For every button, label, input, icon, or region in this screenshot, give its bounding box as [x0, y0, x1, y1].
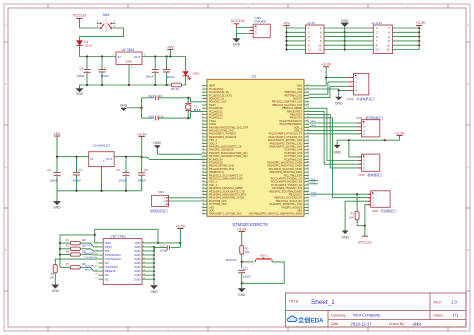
svg-text:+5V: +5V: [167, 45, 174, 49]
wire R2 to C11 node: [241, 254, 243, 268]
svg-text:+3.3V: +3.3V: [137, 132, 147, 136]
svg-text:CN8: CN8: [372, 209, 378, 213]
U1 right pin names: [249, 85, 303, 216]
ground symbol BOOT0: [238, 283, 246, 297]
power flag VCC12v (input): [73, 14, 87, 22]
wires header np3.3V right pins to +3.3V rail: [392, 26, 420, 50]
ground symbol CN1/CN4: [333, 140, 341, 154]
connector CN7 JTAG body: [103, 235, 142, 285]
svg-text:44: 44: [307, 148, 309, 150]
svg-text:100pF: 100pF: [160, 248, 168, 252]
ground symbol MCU VSS: [153, 141, 161, 154]
svg-text:TDO/SWO: TDO/SWO: [85, 265, 96, 267]
svg-text:PA8/USART1_CK/TIM1_CH1: PA8/USART1_CK/TIM1_CH1: [209, 213, 242, 216]
wire U1 to CN4 pin4: [309, 115, 362, 168]
ground symbol R6: [52, 273, 60, 293]
capacitor C1 500nF: [99, 57, 110, 86]
wire U1 to CN4 pin3: [309, 111, 362, 164]
svg-text:11: 11: [203, 116, 205, 118]
svg-text:C4: C4: [79, 168, 83, 172]
CN7 left pin names: [105, 241, 122, 281]
svg-text:GND: GND: [52, 289, 60, 293]
svg-text:53: 53: [307, 120, 309, 122]
svg-text:33: 33: [307, 184, 309, 186]
svg-text:48: 48: [307, 136, 309, 138]
wire U1 PB6 to CN2 pin2: [309, 82, 348, 94]
svg-text:500nF: 500nF: [166, 75, 174, 79]
svg-text:46: 46: [307, 142, 309, 144]
svg-text:37: 37: [202, 200, 204, 202]
ground symbol CN2: [335, 97, 343, 106]
svg-text:10K: 10K: [349, 215, 354, 219]
wire CN8 pin4 to VCC12v: [365, 205, 371, 226]
wire TCK to pull-down resistor: [55, 259, 98, 264]
capacitor C2 100uF: [145, 57, 158, 86]
wire VCC12v to SW1: [80, 22, 97, 28]
svg-text:40: 40: [307, 161, 309, 163]
power flag +5V (U3 input): [54, 132, 61, 157]
svg-text:37: 37: [307, 171, 309, 173]
svg-text:20: 20: [143, 278, 145, 280]
connector CN3: [150, 190, 169, 213]
svg-text:GND: GND: [333, 151, 341, 155]
svg-text:33: 33: [202, 187, 204, 189]
wire U1 PB7 to CN2 pin3: [309, 86, 348, 97]
ground symbol CN7: [150, 286, 158, 294]
wire +3.3V to U1 VDD: [142, 157, 202, 159]
svg-text:1: 1: [203, 84, 204, 86]
svg-text:GND: GND: [53, 205, 61, 209]
svg-text:4: 4: [143, 245, 144, 247]
svg-text:2: 2: [143, 241, 144, 243]
junction dots output rail: [154, 55, 156, 57]
svg-text:KEY1: KEY1: [260, 253, 268, 257]
wire CN7 right VDD to +3.3V riser: [147, 242, 180, 244]
svg-text:+3.3V: +3.3V: [416, 21, 426, 25]
capacitor C6 100uF: [47, 157, 60, 191]
svg-text:C11: C11: [243, 267, 248, 271]
svg-text:30: 30: [307, 193, 309, 195]
svg-text:52: 52: [307, 123, 309, 125]
wire D1 to U2 IN: [80, 45, 117, 56]
svg-text:步进电机接口: 步进电机接口: [357, 96, 375, 101]
title block: [285, 293, 466, 327]
svg-text:39: 39: [202, 206, 204, 208]
wire U1 to CN1 pin1: [309, 122, 357, 124]
svg-text:7: 7: [203, 104, 204, 106]
svg-text:BOOT0: BOOT0: [226, 258, 237, 262]
svg-text:np 3.3V: np 3.3V: [372, 21, 384, 25]
wire +5V to U3 IN: [57, 156, 89, 158]
ground rail U3 section: [57, 190, 142, 192]
svg-text:21: 21: [202, 148, 204, 150]
diode D1 SS14: [77, 40, 92, 47]
svg-text:VCC12v: VCC12v: [231, 19, 245, 23]
svg-text:13: 13: [95, 266, 97, 268]
svg-text:26: 26: [307, 206, 309, 208]
svg-text:C12: C12: [160, 243, 165, 247]
svg-text:100uF: 100uF: [145, 75, 153, 79]
wires header np5V right pins to GND rail: [324, 27, 346, 51]
svg-text:24: 24: [307, 212, 309, 214]
svg-text:8: 8: [143, 253, 144, 255]
svg-text:54: 54: [307, 116, 309, 118]
connector CN4: [358, 154, 382, 177]
wire U2 OUT +5V rail: [142, 56, 186, 58]
svg-text:56: 56: [307, 110, 309, 112]
svg-text:39: 39: [307, 164, 309, 166]
svg-text:50: 50: [307, 129, 309, 131]
push button KEY1: [242, 253, 277, 266]
svg-text:18: 18: [202, 139, 204, 141]
svg-text:10K: 10K: [82, 239, 87, 242]
svg-text:20: 20: [202, 145, 204, 147]
svg-text:14: 14: [202, 126, 204, 128]
svg-text:TCK/SWCLK: TCK/SWCLK: [84, 257, 97, 259]
wire U3 OUT to +3.3V rail: [114, 156, 142, 158]
connector CN8: [368, 191, 396, 213]
svg-text:30: 30: [202, 177, 204, 179]
svg-text:C1: C1: [104, 66, 108, 70]
wire C10 to OSC_OUT: [158, 111, 202, 118]
power flag +3.3V (BOOT0): [237, 227, 247, 245]
pin header np 5V: [306, 21, 325, 54]
net labels JTAG: [84, 245, 97, 271]
svg-text:28: 28: [202, 171, 204, 173]
resistor R4 10K (TMS pull-up): [60, 250, 98, 256]
svg-text:15: 15: [202, 129, 204, 131]
svg-text:100nF: 100nF: [243, 275, 251, 279]
svg-text:29: 29: [202, 174, 204, 176]
wire GND to U1 VSS: [157, 153, 202, 155]
wire U1 to CN1 pin3: [309, 130, 357, 132]
svg-text:+5V: +5V: [283, 21, 290, 25]
capacitor C10 22pF (series bottom): [142, 114, 165, 120]
svg-text:12: 12: [318, 48, 322, 52]
svg-text:+3.3V: +3.3V: [237, 227, 247, 231]
svg-text:3: 3: [203, 91, 204, 93]
svg-text:27: 27: [202, 168, 204, 170]
power flag +3.3V (headers): [416, 21, 426, 25]
wire SW1 to D1: [80, 28, 124, 41]
MCU U1 STM32F103RCT6 body: [207, 74, 304, 227]
power flag +5V (header): [283, 21, 290, 25]
svg-text:32: 32: [307, 187, 309, 189]
svg-text:4: 4: [203, 94, 204, 96]
svg-text:射频遥控接口: 射频遥控接口: [150, 208, 168, 213]
CN7 left pin stubs and numbers: [95, 241, 103, 279]
svg-text:14: 14: [143, 266, 145, 268]
wires CN7 GND pins to rail: [147, 246, 155, 286]
svg-text:GND: GND: [76, 92, 84, 96]
svg-text:100uF: 100uF: [119, 178, 127, 182]
wire KEY1 to ground loop: [242, 262, 285, 283]
svg-text:TITLE:: TITLE:: [289, 300, 300, 304]
svg-text:8: 8: [203, 107, 204, 109]
power flag +5V: [167, 45, 174, 56]
svg-text:36: 36: [202, 196, 204, 198]
wire trunk to CN4 pin1: [349, 140, 362, 157]
svg-text:500nF: 500nF: [73, 178, 81, 182]
U1 left pin stubs and numbers: [202, 84, 207, 214]
ground symbol CN6: [233, 39, 241, 47]
svg-text:34: 34: [307, 180, 309, 182]
wire U2 GND pin to ground rail: [128, 65, 130, 86]
svg-text:11: 11: [96, 262, 98, 264]
svg-text:35: 35: [202, 193, 204, 195]
svg-text:17: 17: [202, 136, 204, 138]
wire U1 to CN1 pin4: [309, 133, 357, 135]
svg-text:19: 19: [95, 278, 97, 280]
resistor R3 10K (pull to VCC12v): [349, 194, 359, 226]
svg-text:22: 22: [202, 152, 204, 154]
svg-text:REV:: REV:: [434, 300, 442, 304]
power flag +3.3V (CN1/CN4): [395, 131, 405, 140]
capacitor C12 100pF (decoupling): [154, 243, 180, 252]
svg-text:64: 64: [307, 84, 309, 86]
svg-text:10: 10: [202, 113, 204, 115]
svg-text:Drawn By:: Drawn By:: [389, 322, 405, 326]
power flag +3.3V (CN7): [176, 224, 186, 247]
wire +3.3V / GND rail CN1-CN4: [337, 139, 400, 141]
wire C9 to OSC_IN: [158, 98, 202, 102]
svg-text:CN3: CN3: [158, 190, 164, 194]
svg-text:12: 12: [143, 262, 145, 264]
svg-text:SW1: SW1: [102, 13, 109, 17]
svg-text:35: 35: [307, 177, 309, 179]
svg-text:GND: GND: [233, 43, 241, 47]
svg-text:NC: NC: [105, 277, 109, 281]
svg-text:VDD PB(1)SPI2_NAV/GC2_SSB/AD: VDD PB(1)SPI2_NAV/GC2_SSB/ADTIM1_BKIN: [249, 213, 303, 216]
svg-text:VCC12v: VCC12v: [73, 14, 87, 18]
svg-text:18: 18: [143, 274, 145, 276]
wire R3 to VCC12v node: [357, 225, 365, 227]
svg-text:PWOER: PWOER: [255, 19, 267, 23]
svg-text:RESET#: RESET#: [85, 269, 94, 271]
svg-text:25: 25: [307, 209, 309, 211]
capacitor C9 22pF (series top): [142, 94, 163, 100]
svg-text:22pF: 22pF: [148, 94, 154, 98]
svg-text:6: 6: [143, 249, 144, 251]
svg-text:GND: GND: [335, 101, 343, 105]
svg-text:36: 36: [307, 174, 309, 176]
svg-text:LED1: LED1: [193, 72, 201, 76]
wire U1 to CN1 pin2: [309, 126, 357, 128]
svg-text:42: 42: [307, 155, 309, 157]
capacitor C7 100uF: [116, 157, 129, 191]
svg-text:CN2: CN2: [347, 97, 353, 101]
svg-text:TMS/SWDIO: TMS/SWDIO: [84, 253, 97, 255]
svg-text:49: 49: [307, 132, 309, 134]
svg-text:TRST: TRST: [86, 245, 92, 247]
ground symbol U3 section: [53, 191, 61, 210]
svg-text:5: 5: [203, 97, 204, 99]
resistor R7 10K (RESET pull-up): [60, 263, 98, 271]
svg-text:6: 6: [203, 100, 204, 102]
connector CN1 label: [356, 115, 383, 120]
svg-text:1.0: 1.0: [451, 299, 457, 304]
svg-text:SS14: SS14: [85, 44, 92, 48]
svg-text:40: 40: [202, 209, 204, 211]
svg-text:63: 63: [307, 88, 309, 90]
connector CN2: [347, 73, 374, 101]
wire CN7 VDD loop: [95, 229, 158, 243]
svg-text:CN7 JTAG: CN7 JTAG: [111, 235, 127, 239]
svg-text:2: 2: [203, 88, 204, 90]
svg-text:29: 29: [307, 196, 309, 198]
capacitor C8 100uF: [77, 57, 91, 86]
wire +3.3V to CN2 pin1: [326, 77, 348, 79]
svg-text:16: 16: [143, 270, 145, 272]
svg-text:PC10: PC10: [311, 192, 317, 194]
svg-text:27: 27: [307, 203, 309, 205]
wires GND rail to header np3.3V left pins: [345, 28, 374, 50]
svg-text:IN: IN: [90, 157, 93, 161]
svg-text:IN: IN: [118, 55, 121, 59]
svg-text:500nF: 500nF: [101, 74, 109, 78]
svg-text:CN4: CN4: [358, 173, 364, 177]
svg-text:100uF: 100uF: [50, 178, 58, 182]
svg-text:OUT: OUT: [106, 157, 113, 161]
svg-text:OUT: OUT: [134, 55, 141, 59]
svg-text:13: 13: [202, 123, 204, 125]
svg-text:Company:: Company:: [331, 313, 347, 317]
svg-text:Sheet_1: Sheet_1: [311, 299, 335, 306]
capacitor C11 100nF: [238, 267, 251, 284]
svg-text:Your Company: Your Company: [353, 313, 381, 318]
svg-text:1/1: 1/1: [453, 313, 459, 318]
svg-text:TDI: TDI: [86, 249, 90, 251]
svg-text:PA12: PA12: [311, 124, 317, 127]
wire CN3 pin2 to U1: [169, 200, 203, 202]
svg-text:58: 58: [307, 104, 309, 106]
svg-text:34: 34: [202, 190, 204, 192]
wire CN3 pin1 to U1: [169, 197, 203, 199]
junction dots input rail: [86, 55, 88, 57]
svg-text:继电器接口: 继电器接口: [368, 172, 383, 177]
resistor R5 1K: [171, 83, 182, 91]
svg-text:np 5V: np 5V: [307, 21, 316, 25]
svg-text:28: 28: [307, 200, 309, 202]
svg-text:8MHz: 8MHz: [194, 108, 202, 112]
svg-text:12: 12: [387, 48, 391, 52]
svg-text:C8: C8: [79, 66, 83, 70]
svg-text:GND: GND: [126, 59, 134, 63]
regulator U2 7805: [112, 48, 146, 69]
svg-text:41: 41: [307, 158, 309, 160]
svg-text:U3 ASM1117: U3 ASM1117: [93, 144, 111, 148]
svg-text:43: 43: [307, 152, 309, 154]
svg-text:11: 11: [376, 48, 379, 52]
resistor R2a 10K (TDI pull-up): [60, 245, 98, 251]
svg-text:31: 31: [202, 180, 204, 182]
svg-text:25: 25: [202, 161, 204, 163]
crystal Y1 8MHz: [185, 98, 202, 118]
svg-text:R5 1K: R5 1K: [171, 87, 179, 91]
svg-text:47: 47: [307, 139, 309, 141]
wire CN8 pin3 to GND: [345, 201, 371, 230]
power flag +3.3V (CN2): [321, 63, 331, 78]
svg-text:U1: U1: [252, 74, 257, 78]
svg-text:GND: GND: [341, 19, 349, 23]
wire VCC12v to CN6 pin1: [237, 26, 250, 28]
svg-text:GND: GND: [120, 103, 128, 107]
svg-text:C5: C5: [144, 168, 148, 172]
ground symbol crystal: [120, 103, 128, 111]
svg-text:32: 32: [202, 184, 204, 186]
power flag VCC12v (CN8): [358, 226, 372, 245]
U1 left pin names: [209, 85, 248, 216]
svg-text:24: 24: [202, 158, 204, 160]
svg-text:+3.3V: +3.3V: [321, 63, 331, 67]
wire crystal left rail: [141, 98, 143, 118]
svg-text:VCC12v: VCC12v: [358, 240, 372, 244]
power flag VCC12v (CN6): [231, 19, 245, 28]
svg-text:+5V: +5V: [54, 132, 61, 136]
svg-text:GND: GND: [238, 293, 246, 297]
wire LED to R5: [181, 76, 186, 85]
wire +5V rail to header left pins: [285, 26, 305, 51]
LCEDA logo: [287, 316, 324, 325]
svg-text:GND: GND: [150, 290, 158, 294]
svg-text:GND: GND: [341, 235, 349, 239]
pin header np 3.3V: [372, 21, 393, 54]
svg-text:B: B: [5, 82, 7, 86]
svg-text:C7: C7: [116, 168, 120, 172]
svg-text:10K: 10K: [50, 276, 55, 279]
wire crystal ground tap: [127, 107, 142, 109]
CN7 right pin stubs and numbers: [142, 241, 147, 279]
svg-text:23: 23: [202, 155, 204, 157]
ground symbol 7805 section: [76, 85, 84, 96]
wire +3.3V rail to pull-up resistors: [59, 235, 95, 267]
svg-text:立创EDA: 立创EDA: [298, 317, 324, 325]
svg-text:GND: GND: [153, 141, 161, 145]
wire U1 to CN8 pin1: [309, 193, 371, 195]
svg-text:U2 7805: U2 7805: [122, 48, 135, 52]
resistor R2 10k: [240, 246, 250, 255]
wire +3.3V to U1 VDD (right): [309, 78, 326, 86]
svg-text:10: 10: [143, 258, 145, 260]
svg-text:GND: GND: [134, 277, 140, 281]
switch SW1: [97, 13, 116, 33]
svg-text:+3.3V: +3.3V: [395, 131, 405, 135]
LED LED1: [182, 57, 200, 80]
wire U1 VSS to GND (right): [309, 89, 339, 97]
svg-text:38: 38: [307, 168, 309, 170]
svg-text:Date:: Date:: [331, 322, 339, 326]
svg-text:A: A: [5, 23, 7, 27]
svg-text:Sheet:: Sheet:: [434, 313, 444, 317]
ground symbol header GND: [341, 19, 349, 27]
connector CN1 body: [357, 120, 380, 137]
svg-text:12: 12: [202, 120, 204, 122]
svg-text:9: 9: [203, 110, 204, 112]
svg-text:57: 57: [307, 107, 309, 109]
svg-text:51: 51: [307, 126, 309, 128]
capacitor C3 500nF: [163, 57, 175, 86]
wire U1 to CN4 pin2: [309, 108, 362, 160]
regulator U3 ASM1117: [89, 144, 115, 191]
capacitor C5 500nF: [138, 157, 148, 191]
svg-text:55: 55: [307, 113, 309, 115]
svg-text:41: 41: [202, 212, 204, 214]
svg-text:PA11: PA11: [311, 120, 317, 123]
svg-text:38: 38: [202, 203, 204, 205]
power flag +3.3V (U3 output): [137, 132, 147, 157]
resistor R6 10K (TCK pull-down): [50, 265, 58, 280]
svg-text:17: 17: [95, 274, 97, 276]
